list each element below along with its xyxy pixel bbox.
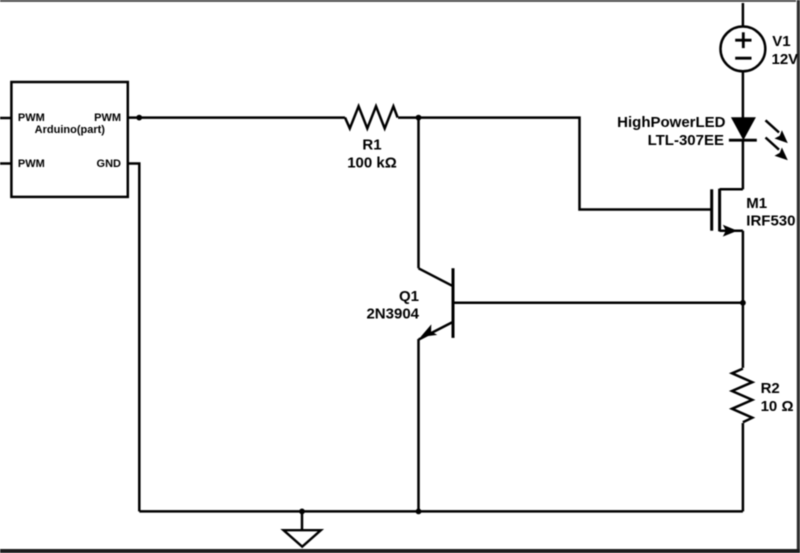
svg-text:LTL-307EE: LTL-307EE xyxy=(648,132,724,149)
svg-text:R1: R1 xyxy=(362,137,381,154)
svg-text:PWM: PWM xyxy=(18,158,45,170)
svg-text:Arduino(part): Arduino(part) xyxy=(35,124,106,136)
svg-text:GND: GND xyxy=(97,158,122,170)
svg-text:M1: M1 xyxy=(746,195,767,212)
svg-text:IRF530: IRF530 xyxy=(746,213,795,230)
svg-text:100 kΩ: 100 kΩ xyxy=(347,155,397,172)
svg-text:Q1: Q1 xyxy=(399,288,419,305)
svg-text:12V: 12V xyxy=(772,51,799,68)
svg-text:R2: R2 xyxy=(761,380,780,397)
svg-text:2N3904: 2N3904 xyxy=(366,305,419,322)
svg-text:PWM: PWM xyxy=(94,112,121,124)
svg-text:HighPowerLED: HighPowerLED xyxy=(617,114,726,131)
svg-text:V1: V1 xyxy=(772,33,790,50)
svg-text:PWM: PWM xyxy=(18,112,45,124)
svg-text:10 Ω: 10 Ω xyxy=(761,398,794,415)
